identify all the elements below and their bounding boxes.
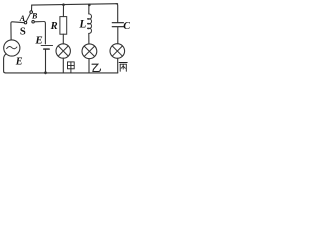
capacitor C top plate (112, 22, 123, 24)
svg-text:B: B (31, 12, 38, 21)
wire lamp jia to bottom bus (62, 58, 64, 73)
AC source sine wave (7, 46, 17, 48)
lamp yi circle (82, 44, 97, 59)
lamp jia circle (56, 44, 70, 58)
svg-text:R: R (50, 21, 58, 32)
wire contact A to AC source (11, 22, 24, 40)
wire R to lamp jia (62, 34, 64, 44)
wire top bus corner to C (116, 4, 118, 22)
AC source E circle (4, 40, 20, 56)
wire AC source to bottom bus (4, 54, 7, 73)
wire bottom bus (5, 72, 117, 74)
wire C to lamp bing (117, 27, 119, 44)
inductor L coil (87, 14, 91, 34)
battery E short plate (44, 48, 50, 50)
wire L coil to lamp yi (88, 33, 90, 44)
svg-text:L: L (78, 19, 86, 31)
switch contact A (24, 21, 27, 24)
resistor R box (60, 17, 67, 35)
wire top bus to R (62, 5, 64, 17)
junction dot battery/bottom bus (44, 71, 47, 74)
svg-text:S: S (20, 26, 26, 37)
lamp bing circle (110, 44, 125, 59)
junction dot R branch/top bus (62, 3, 65, 6)
wire contact B to battery (34, 21, 45, 43)
capacitor C bottom plate (112, 26, 123, 28)
label bing (丙) (119, 63, 127, 72)
wire lamp bing to bottom bus (117, 58, 119, 73)
switch S pole terminal (30, 11, 33, 14)
switch contact B (32, 21, 35, 24)
label jia (甲) (68, 62, 75, 73)
svg-text:C: C (123, 21, 130, 32)
svg-text:E: E (15, 57, 23, 68)
svg-text:A: A (19, 14, 26, 23)
label yi (乙) (92, 64, 101, 71)
lamp yi cross (84, 46, 94, 56)
lamp bing cross (112, 46, 122, 56)
wire battery to bottom bus (45, 50, 47, 73)
lamp jia cross (58, 46, 68, 56)
switch S arm (26, 13, 30, 21)
wire top bus to L coil (88, 5, 90, 14)
battery E long plate (41, 44, 53, 46)
junction dot L branch/top bus (88, 4, 91, 7)
wire top bus (32, 4, 118, 5)
wire lamp yi to bottom bus (88, 59, 90, 73)
wire switch pole drop (31, 5, 33, 11)
svg-text:E: E (34, 35, 42, 47)
